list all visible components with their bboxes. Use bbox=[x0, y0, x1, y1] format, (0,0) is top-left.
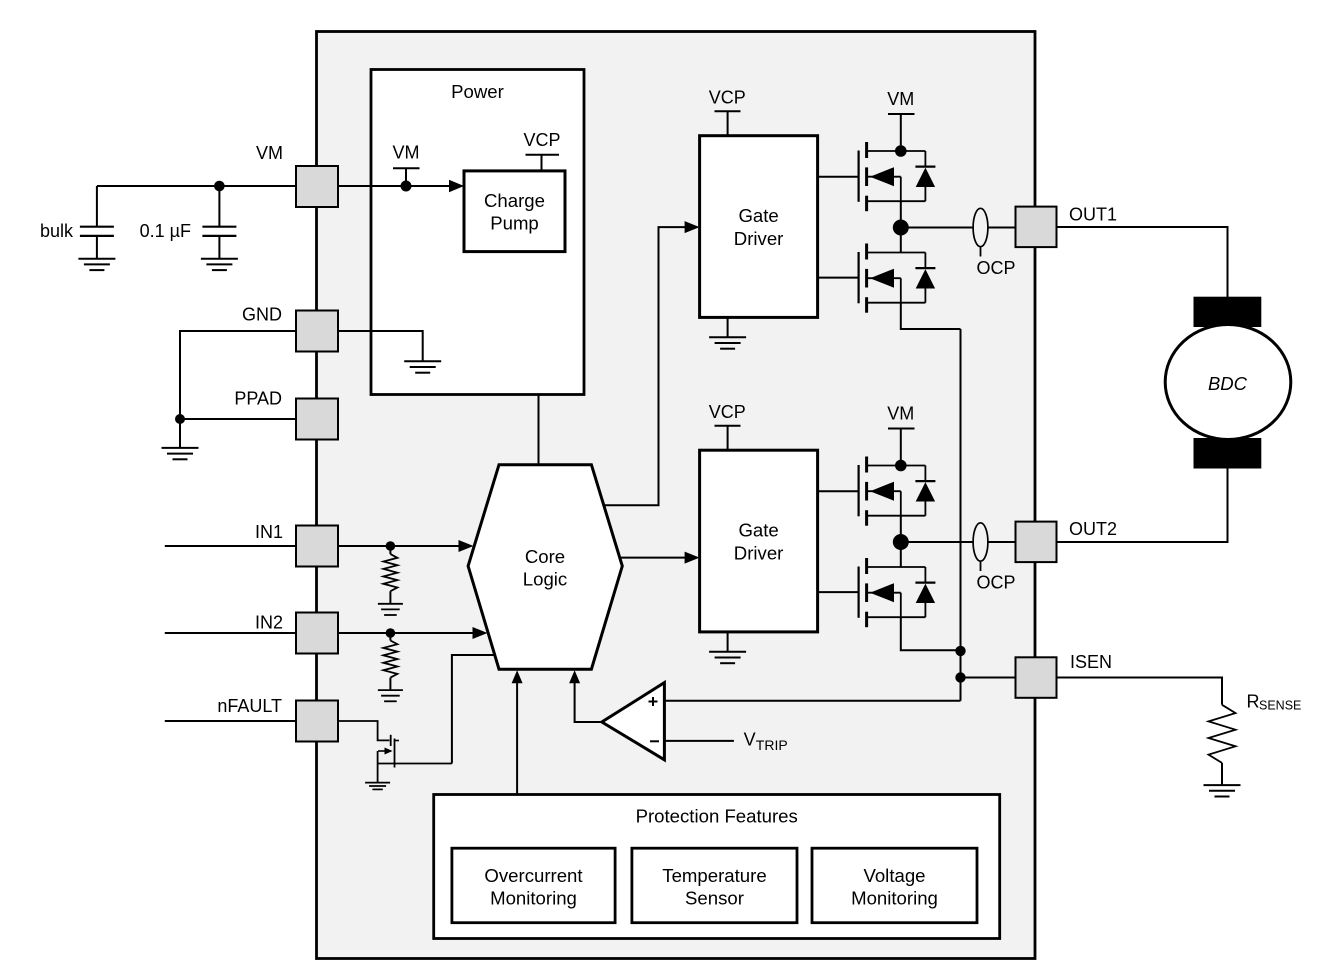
transistor Q1L source stub bbox=[867, 302, 926, 304]
label pin IN2 bbox=[255, 613, 283, 633]
pin ISEN pad bbox=[1016, 657, 1057, 698]
arrow into gate driver 2 bbox=[685, 552, 700, 564]
wire ISEN rail to pad bbox=[961, 677, 1017, 679]
comparator plus input marker bbox=[649, 697, 658, 706]
svg-text:VM: VM bbox=[256, 143, 283, 163]
wire gate driver 1 to low-side gate bbox=[818, 277, 859, 279]
arrow IN1 into core logic bbox=[459, 540, 474, 552]
svg-text:Driver: Driver bbox=[734, 542, 784, 563]
wire ISEN to RSENSE bbox=[1057, 678, 1223, 705]
temperature sensor box bbox=[632, 848, 797, 923]
arrow protection into core logic bbox=[512, 670, 523, 683]
wire PPAD pad external bbox=[180, 418, 296, 420]
wire nFAULT FET source/drain rail bbox=[378, 751, 452, 783]
ground (RSENSE) bbox=[1204, 785, 1241, 796]
wire drain dot to diode bridge 1 high bbox=[901, 150, 926, 152]
label pin PPAD bbox=[234, 389, 282, 409]
wire gate driver 1 to high-side gate bbox=[818, 176, 859, 178]
label pin IN1 bbox=[255, 522, 283, 542]
pin OUT2 pad bbox=[1016, 522, 1057, 563]
svg-text:Temperature: Temperature bbox=[662, 865, 766, 886]
svg-text:TRIP: TRIP bbox=[756, 737, 788, 753]
wire nFAULT FET to core logic bbox=[452, 655, 495, 764]
wire OCP to OUT1 pad bbox=[988, 227, 1015, 229]
label 0.1 uF bbox=[140, 221, 191, 241]
wire comparator plus input bbox=[664, 700, 960, 702]
svg-text:Pump: Pump bbox=[490, 213, 539, 234]
pin PPAD pad bbox=[296, 399, 338, 440]
pin IN1 pad bbox=[296, 526, 338, 567]
label bulk bbox=[40, 221, 74, 241]
transistor Q1H channel bbox=[865, 142, 868, 211]
transistor Q2L drain stub bbox=[867, 566, 926, 568]
transistor Q2H drain stub bbox=[867, 465, 901, 467]
svg-text:OCP: OCP bbox=[976, 573, 1015, 593]
capacitor 0.1 uF bbox=[202, 186, 236, 259]
label VCP (gate driver 2) bbox=[709, 402, 746, 422]
wire VM net external bbox=[97, 185, 296, 187]
svg-text:0.1 µF: 0.1 µF bbox=[140, 221, 191, 241]
voltage monitoring box bbox=[812, 848, 977, 923]
ground (bulk capacitor) bbox=[78, 259, 115, 270]
label VCP (gate driver 1) bbox=[709, 88, 746, 108]
svg-text:Power: Power bbox=[451, 81, 504, 102]
wire high-side source to phase node 2 bbox=[900, 516, 902, 567]
label pin nFAULT bbox=[217, 696, 282, 716]
wire bridge2 source to ISEN rail bbox=[901, 617, 961, 650]
ground (IN2 pulldown) bbox=[378, 690, 403, 701]
wire bridge1 source to ISEN rail bbox=[901, 303, 961, 329]
svg-text:BDC: BDC bbox=[1208, 373, 1248, 394]
svg-text:Voltage: Voltage bbox=[863, 865, 925, 886]
wire phase to OCP bridge 1 bbox=[901, 227, 973, 229]
current sense OCP 2 ellipse bbox=[973, 523, 988, 571]
svg-text:Driver: Driver bbox=[734, 228, 784, 249]
transistor Q1L drain stub bbox=[867, 252, 926, 254]
label Gate Driver 2 bbox=[734, 520, 784, 564]
svg-text:GND: GND bbox=[242, 305, 282, 325]
arrow IN2 into core logic bbox=[473, 627, 488, 639]
wire phase to OCP bridge 2 bbox=[901, 541, 973, 543]
svg-text:IN2: IN2 bbox=[255, 613, 283, 633]
pin VM pad bbox=[296, 166, 338, 207]
current sense OCP 1 ellipse bbox=[973, 208, 988, 256]
label Power bbox=[451, 81, 504, 102]
svg-text:Overcurrent: Overcurrent bbox=[484, 865, 583, 886]
motor BDC terminal top bbox=[1194, 297, 1262, 327]
label Temperature Sensor bbox=[662, 865, 766, 908]
pin OUT1 pad bbox=[1016, 207, 1057, 248]
wire drain dot to diode bridge 2 high bbox=[901, 465, 926, 467]
charge pump U-CP box bbox=[464, 171, 565, 252]
svg-text:SENSE: SENSE bbox=[1259, 699, 1301, 713]
transistor Q2L channel bbox=[865, 558, 868, 627]
transistor nFAULT open-drain FET bbox=[378, 735, 399, 768]
wire gate driver 2 to low-side gate bbox=[818, 591, 859, 593]
body diode Q1L bbox=[915, 253, 935, 303]
label OCP 2 bbox=[976, 573, 1015, 593]
arrow into charge pump bbox=[449, 180, 464, 193]
wire GND pad external bbox=[180, 331, 296, 419]
wire OUT1 to motor bbox=[1056, 227, 1228, 297]
pulldown resistor IN1 bbox=[383, 546, 397, 604]
svg-text:Sensor: Sensor bbox=[685, 887, 744, 908]
node drain VM bridge 1 bbox=[895, 145, 907, 157]
node IN1 pulldown junction bbox=[386, 541, 396, 551]
svg-text:OUT1: OUT1 bbox=[1069, 205, 1117, 225]
label VCP (charge pump) bbox=[523, 130, 560, 150]
label Overcurrent Monitoring bbox=[484, 865, 583, 908]
svg-text:Monitoring: Monitoring bbox=[851, 887, 938, 908]
wire gate driver 2 to high-side gate bbox=[818, 490, 859, 492]
transistor Q1L gate bar bbox=[857, 252, 859, 303]
label RSENSE bbox=[1247, 692, 1302, 713]
VM rail stub (power box) bbox=[393, 168, 420, 186]
ground (0.1 uF capacitor) bbox=[201, 259, 238, 270]
label pin GND bbox=[242, 305, 282, 325]
VCP rail gate driver 1 bbox=[715, 111, 741, 136]
transistor Q2H source stub bbox=[867, 515, 926, 517]
wire core logic to gate driver 2 bbox=[620, 557, 686, 559]
node VM external junction bbox=[214, 181, 225, 192]
label VM (bridge 2) bbox=[887, 404, 914, 424]
transistor Q1H drain stub bbox=[867, 150, 901, 152]
node phase OUT1 bbox=[893, 220, 909, 236]
transistor Q1H gate bar bbox=[857, 151, 859, 202]
wire ISEN rail bbox=[960, 329, 962, 701]
svg-text:Gate: Gate bbox=[738, 205, 778, 226]
wire GND pad to internal ground bbox=[338, 331, 423, 361]
node ISEN junction lower bbox=[955, 672, 965, 682]
VCP rail gate driver 2 bbox=[715, 426, 741, 451]
wire IN2 bbox=[165, 632, 473, 634]
wire comparator minus input (VTRIP) bbox=[664, 740, 734, 742]
transistor Q2L gate bar bbox=[857, 567, 859, 618]
label Protection Features bbox=[636, 806, 798, 827]
svg-text:Charge: Charge bbox=[484, 190, 545, 211]
label VTRIP bbox=[744, 730, 788, 754]
label OCP 1 bbox=[976, 258, 1015, 278]
body diode Q2L bbox=[915, 567, 935, 617]
svg-text:Logic: Logic bbox=[523, 569, 567, 590]
wire core logic to gate driver 1 bbox=[605, 227, 685, 505]
svg-text:VM: VM bbox=[887, 89, 914, 109]
label pin ISEN bbox=[1070, 652, 1112, 672]
motor BDC body bbox=[1165, 325, 1291, 440]
wire IN1 bbox=[165, 545, 459, 547]
label pin OUT1 bbox=[1069, 205, 1117, 225]
protection features box bbox=[434, 795, 1000, 939]
motor BDC terminal bottom bbox=[1194, 438, 1262, 469]
pulldown resistor IN2 bbox=[383, 633, 397, 690]
core logic block bbox=[468, 465, 622, 670]
wire power block to core logic bbox=[538, 395, 540, 467]
gate driver 2 box bbox=[700, 450, 818, 632]
svg-text:Core: Core bbox=[525, 546, 565, 567]
svg-text:nFAULT: nFAULT bbox=[217, 696, 282, 716]
svg-text:bulk: bulk bbox=[40, 221, 74, 241]
svg-text:Protection Features: Protection Features bbox=[636, 806, 798, 827]
svg-text:OCP: OCP bbox=[976, 258, 1015, 278]
ground (power block) bbox=[404, 361, 441, 372]
svg-text:Monitoring: Monitoring bbox=[490, 887, 577, 908]
transistor Q1H source stub bbox=[867, 200, 926, 202]
svg-text:VCP: VCP bbox=[709, 402, 746, 422]
svg-text:VM: VM bbox=[393, 143, 420, 163]
transistor Q2H channel bbox=[865, 457, 868, 526]
body diode Q1H bbox=[915, 151, 935, 201]
ground (GND/PPAD) bbox=[162, 419, 199, 459]
ground (IN1 pulldown) bbox=[378, 604, 403, 615]
svg-text:PPAD: PPAD bbox=[234, 389, 282, 409]
body diode Q2H bbox=[915, 466, 935, 516]
wire protection features to core logic bbox=[516, 683, 518, 795]
transistor Q1H body stub with arrow bbox=[867, 167, 901, 201]
svg-text:V: V bbox=[744, 730, 756, 750]
svg-text:VCP: VCP bbox=[523, 130, 560, 150]
svg-text:Gate: Gate bbox=[738, 520, 778, 541]
power block box bbox=[371, 70, 584, 395]
wire high-side source to phase node 1 bbox=[900, 201, 902, 252]
VCP rail on charge pump bbox=[526, 155, 560, 171]
wire OCP to OUT2 pad bbox=[988, 541, 1015, 543]
label VM (bridge 1) bbox=[887, 89, 914, 109]
arrow into gate driver 1 bbox=[685, 221, 700, 233]
transistor Q1L channel bbox=[865, 244, 868, 313]
svg-text:VM: VM bbox=[887, 404, 914, 424]
label VM (power box) bbox=[393, 143, 420, 163]
bulk capacitor bbox=[80, 186, 114, 259]
transistor Q2L source stub bbox=[867, 616, 926, 618]
transistor Q2L body stub with arrow bbox=[867, 583, 901, 617]
pin GND pad bbox=[296, 311, 338, 352]
wire motor to OUT2 bbox=[1056, 469, 1228, 543]
comparator U-CMP bbox=[602, 683, 665, 760]
gate driver 1 box bbox=[700, 136, 818, 318]
wire nFAULT bbox=[165, 720, 338, 722]
wire comparator to core logic bbox=[575, 683, 602, 722]
node VM (power box) bbox=[401, 181, 412, 192]
svg-text:IN1: IN1 bbox=[255, 522, 283, 542]
label pin VM bbox=[256, 143, 283, 163]
node ISEN junction upper bbox=[955, 646, 965, 656]
transistor Q2H gate bar bbox=[857, 465, 859, 516]
label Gate Driver 1 bbox=[734, 205, 784, 249]
ground (nFAULT FET) bbox=[365, 783, 390, 790]
IC device boundary box bbox=[317, 32, 1036, 959]
transistor Q1L body stub with arrow bbox=[867, 269, 901, 303]
ground (gate driver 1) bbox=[709, 317, 746, 348]
svg-text:R: R bbox=[1247, 692, 1260, 712]
VM rail bridge 1 bbox=[888, 114, 915, 151]
overcurrent monitoring box bbox=[452, 848, 615, 923]
svg-text:VCP: VCP bbox=[709, 88, 746, 108]
label Core Logic bbox=[523, 546, 567, 590]
label pin OUT2 bbox=[1069, 519, 1117, 539]
svg-text:OUT2: OUT2 bbox=[1069, 519, 1117, 539]
node phase OUT2 bbox=[893, 534, 909, 550]
label Voltage Monitoring bbox=[851, 865, 938, 908]
node GND-PPAD junction bbox=[175, 414, 185, 424]
label Charge Pump bbox=[484, 190, 545, 234]
resistor RSENSE bbox=[1209, 705, 1236, 785]
wire nFAULT to gate bbox=[338, 721, 390, 740]
ground (gate driver 2) bbox=[709, 632, 746, 663]
node drain VM bridge 2 bbox=[895, 460, 907, 472]
arrow comparator into core logic bbox=[569, 670, 580, 683]
pin nFAULT pad bbox=[296, 701, 338, 742]
pin IN2 pad bbox=[296, 613, 338, 654]
wire VM pad to charge pump bbox=[338, 185, 449, 187]
transistor Q2H body stub with arrow bbox=[867, 482, 901, 516]
node IN2 pulldown junction bbox=[386, 628, 396, 638]
label BDC bbox=[1208, 373, 1248, 394]
comparator minus input marker bbox=[650, 740, 659, 742]
VM rail bridge 2 bbox=[888, 429, 915, 466]
svg-text:ISEN: ISEN bbox=[1070, 652, 1112, 672]
